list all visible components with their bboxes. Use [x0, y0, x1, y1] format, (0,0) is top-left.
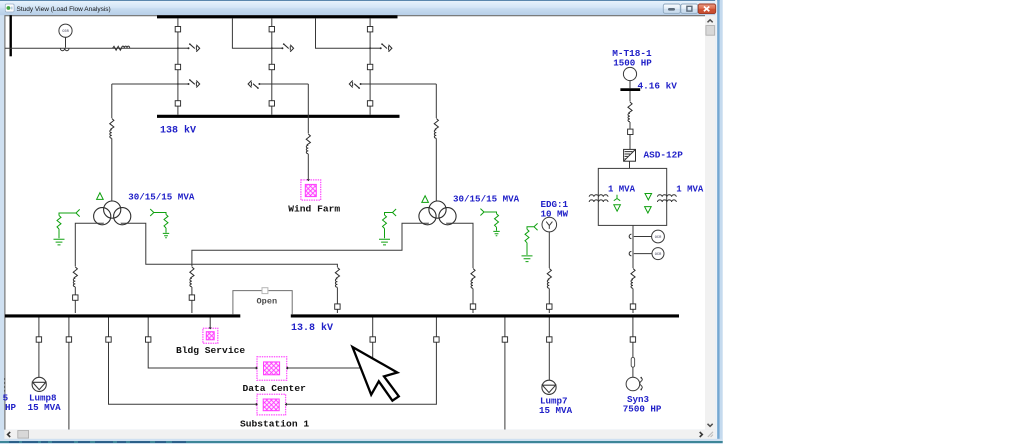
- node CB F3-3: [367, 101, 372, 106]
- connector pin Wind Farm: [307, 179, 309, 180]
- switch fuse F3 row1: [369, 43, 392, 51]
- svg-text:15 MVA: 15 MVA: [539, 405, 573, 416]
- connector pins Data Center: [256, 367, 288, 369]
- svg-text:Wind Farm: Wind Farm: [288, 203, 340, 214]
- svg-text:10 MW: 10 MW: [541, 208, 569, 219]
- bus 13.8kV left segment: [5, 314, 240, 317]
- label T1 winding delta: [97, 193, 104, 200]
- transformer TX-B windings: [658, 195, 677, 202]
- CT mark OCR1: [629, 234, 631, 238]
- wire stub Lump8: [38, 318, 40, 337]
- maximize button: [681, 4, 698, 13]
- wire stub feeder x69: [68, 318, 70, 337]
- impedance Z motor feeder: [628, 102, 632, 122]
- svg-text:Open: Open: [257, 296, 278, 306]
- bus 13.8kV right segment: [291, 314, 679, 317]
- wire Data Center right: [287, 342, 373, 368]
- node CB x75: [73, 295, 78, 300]
- node CB x108: [106, 337, 111, 342]
- svg-text:Substation 1: Substation 1: [240, 419, 309, 430]
- bus utility vertical: [9, 15, 11, 56]
- tie riser right: [269, 291, 293, 315]
- node CB x436: [434, 337, 439, 342]
- wire stub feeder x505: [504, 318, 506, 337]
- impedance Z utility (horizontal): [113, 46, 130, 50]
- CT bumps at utility junction: [60, 48, 69, 50]
- svg-text:15 MVA: 15 MVA: [28, 402, 62, 413]
- wind farm composite box: [301, 180, 321, 200]
- switch fuse F2 row2: [248, 81, 260, 89]
- riser to top bus for F2 row1: [232, 18, 271, 48]
- node CB x69: [66, 337, 71, 342]
- svg-text:HP: HP: [5, 402, 17, 413]
- load Lump7: [542, 380, 556, 394]
- riser to wind farm: [307, 84, 309, 134]
- composite box Substation 1: [257, 394, 286, 415]
- relay OCR1: [634, 230, 665, 243]
- riser to right transformer T2: [435, 84, 437, 118]
- TX-A delta-down symbol: [614, 205, 621, 211]
- impedance Z feeder x337: [335, 268, 339, 288]
- feeder vertical F3: [369, 18, 371, 114]
- svg-text:1 MVA: 1 MVA: [608, 184, 636, 194]
- svg-text:Bldg Service: Bldg Service: [176, 345, 245, 356]
- node CB x337: [335, 304, 340, 309]
- switch fuse F1 row2: [177, 79, 200, 87]
- node CB F1-1: [175, 27, 180, 32]
- wire T1 left secondary: [75, 223, 103, 266]
- svg-text:138 kV: 138 kV: [160, 125, 196, 137]
- node CB x473: [470, 304, 475, 309]
- node tie switch open: [262, 288, 268, 294]
- impedance Z feeder x473: [471, 269, 475, 289]
- svg-text:30/15/15 MVA: 30/15/15 MVA: [453, 193, 520, 204]
- svg-text:OCR: OCR: [655, 236, 662, 240]
- wire F2 row2 to wind farm riser: [259, 83, 308, 85]
- node CB x505: [502, 337, 507, 342]
- node CB x372: [370, 337, 375, 342]
- vertical scrollbar: [705, 15, 715, 430]
- composite box Bldg Service: [203, 328, 218, 343]
- wire stub Lump7: [548, 318, 550, 337]
- transformer T1 30/15/15 MVA: [94, 201, 131, 225]
- node CB F2-3: [269, 101, 274, 106]
- svg-text:OCR: OCR: [655, 253, 662, 257]
- node CB x148: [146, 337, 151, 342]
- svg-text:ASD-12P: ASD-12P: [644, 149, 684, 160]
- ground NGR T2 left: [383, 209, 397, 238]
- ASD-12P drive: [624, 149, 636, 161]
- wire stub Bldg Service: [209, 318, 211, 329]
- node CB F1-2: [175, 64, 180, 69]
- generator EDG:1: [542, 217, 557, 232]
- horizontal scrollbar: [4, 430, 715, 439]
- TX-A wye symbol: [614, 195, 620, 201]
- wire 4.16 bus down: [629, 91, 631, 102]
- svg-text:1 MVA: 1 MVA: [676, 184, 704, 194]
- svg-text:7500 HP: 7500 HP: [623, 403, 662, 414]
- wire motor to 4.16 bus: [629, 81, 631, 89]
- riser to top bus for F3 row1: [316, 18, 371, 48]
- impedance Z T2 primary: [434, 119, 438, 139]
- canvas: [4, 15, 705, 430]
- impedance Z T1 primary: [110, 119, 114, 139]
- tie riser left: [233, 291, 262, 315]
- node CB x633: [630, 304, 635, 309]
- bus 4.16 kV: [620, 88, 640, 91]
- wire stub feeder x148 to Data Center: [147, 318, 149, 337]
- switch fuse F1 row1: [177, 43, 200, 51]
- impedance Z wind farm: [306, 134, 310, 154]
- riser to left transformer T1: [111, 84, 113, 118]
- node CB F3-2: [367, 64, 372, 69]
- bus B-138-top: [157, 15, 398, 18]
- transformer TX-A windings: [589, 195, 608, 202]
- load Lump8: [32, 377, 46, 391]
- svg-text:13.8 kV: 13.8 kV: [291, 322, 333, 334]
- wire T2 left secondary crossover: [192, 223, 429, 266]
- composite box Data Center: [257, 357, 287, 380]
- impedance Z EDG feeder: [547, 269, 551, 289]
- connector pin Bldg Service: [209, 327, 211, 328]
- network box 2x1MVA: [598, 168, 666, 225]
- node CB F2-2: [269, 64, 274, 69]
- connector pins Substation 1: [256, 403, 287, 405]
- feeder vertical F2: [271, 18, 273, 114]
- wire box bottom down: [632, 225, 634, 268]
- generator CGR circle: [59, 24, 72, 47]
- node CB motor: [628, 129, 633, 134]
- transformer T2 30/15/15 MVA: [419, 201, 456, 225]
- wire EDG down: [548, 232, 550, 268]
- wire stub Syn3: [632, 318, 634, 337]
- wire F1 row2 from transformer riser: [112, 83, 178, 85]
- impedance Z feeder x75: [73, 267, 77, 287]
- wire utility row1: [5, 47, 178, 49]
- TX-B delta-down symbol 2: [645, 207, 652, 213]
- node CB x192: [189, 295, 194, 300]
- switch fuse F2 row1: [271, 43, 294, 51]
- wire F3 row2 to transformer riser: [361, 83, 437, 85]
- wire stub feeder x108 to Substation 1: [108, 318, 110, 337]
- wire T2 right secondary: [447, 223, 474, 268]
- svg-text:1500 HP: 1500 HP: [613, 57, 652, 68]
- TX-B delta-down symbol 1: [645, 194, 652, 200]
- node CB F3-1: [367, 27, 372, 32]
- wire ASD to box: [629, 161, 631, 168]
- close button: [698, 4, 716, 14]
- ground NGR T2 right: [480, 209, 498, 231]
- node CB Lump7: [547, 337, 552, 342]
- partial element at canvas edge: [4, 378, 6, 392]
- svg-text:4.16 kV: 4.16 kV: [638, 80, 678, 91]
- impedance Z feeder x192: [190, 267, 194, 287]
- relay OCR2: [634, 248, 664, 260]
- ground NGR EDG: [525, 223, 538, 255]
- svg-text:Data Center: Data Center: [243, 383, 307, 394]
- svg-text:CGR: CGR: [62, 30, 69, 34]
- minimize button: [663, 4, 680, 13]
- wire T1 right secondary crossover: [121, 223, 337, 267]
- ground NGR T1 right: [150, 209, 168, 233]
- wire Substation 1 right: [286, 342, 437, 404]
- feeder vertical F1: [177, 18, 179, 114]
- ground NGR T1 left: [57, 209, 80, 238]
- motor M-T18-1: [623, 67, 636, 80]
- node CB Lump8: [36, 337, 41, 342]
- switch fuse F3 row2: [349, 81, 361, 89]
- window icon: [5, 4, 14, 12]
- node CB F1-3: [175, 101, 180, 106]
- node CB x549: [547, 304, 552, 309]
- mouse cursor: [353, 347, 399, 401]
- CT mark OCR2: [629, 251, 631, 255]
- node CB F2-1: [269, 27, 274, 32]
- svg-text:30/15/15 MVA: 30/15/15 MVA: [128, 191, 195, 202]
- svg-text:Study View (Load Flow Analysis: Study View (Load Flow Analysis): [17, 6, 111, 13]
- impedance Z syn feeder: [631, 269, 635, 289]
- bus B-138kV: [157, 115, 400, 118]
- machine Syn3: [626, 377, 642, 391]
- label T2 winding delta: [422, 196, 429, 203]
- fuse Syn3: [631, 357, 634, 367]
- node CB Syn3: [630, 337, 635, 342]
